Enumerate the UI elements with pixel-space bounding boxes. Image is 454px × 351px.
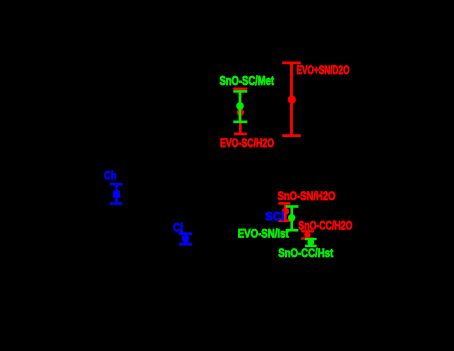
tiny green error bar (305, 239, 317, 246)
cluster green error bar (286, 207, 299, 231)
svg-text:SnO-SC/Met: SnO-SC/Met (220, 74, 275, 88)
svg-text:Ch: Ch (104, 169, 117, 183)
center red error bar (233, 89, 247, 134)
svg-text:EVO+SN/D2O: EVO+SN/D2O (297, 63, 350, 77)
svg-text:SnO-CC/Hst: SnO-CC/Hst (278, 246, 333, 260)
svg-text:EVO-SN/Ist: EVO-SN/Ist (238, 227, 289, 241)
tiny red error bar (301, 231, 314, 238)
blue error bar 1 (110, 184, 123, 203)
right red error bar (282, 63, 301, 136)
svg-text:SnO-CC/H2O: SnO-CC/H2O (298, 219, 352, 233)
svg-text:SnO-SN/H2O: SnO-SN/H2O (278, 189, 336, 203)
center green error bar (233, 91, 247, 121)
svg-text:EVO-SC/H2O: EVO-SC/H2O (220, 136, 274, 150)
cluster red error bar (278, 203, 290, 220)
blue error bar 2 (179, 234, 192, 245)
svg-text:SCl: SCl (265, 210, 285, 224)
